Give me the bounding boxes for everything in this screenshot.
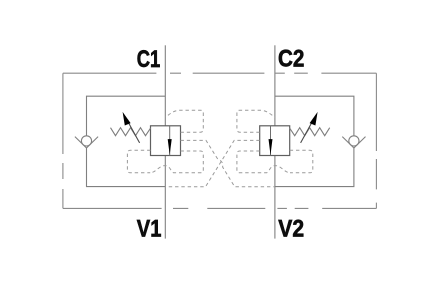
counterbalance valve body right [260,126,290,156]
spring right [290,128,330,136]
flow arrow right [269,139,273,155]
check valve CV2 [342,136,365,148]
counterbalance valve body left [151,126,181,156]
pilot line loop upper left (C1 sense) [165,110,203,132]
line C2 (port C2 to valve) [274,45,276,126]
svg-text:V1: V1 [137,216,162,243]
flow path line right [270,126,272,156]
svg-text:C1: C1 [137,46,161,73]
adjustment arrow left [127,120,140,143]
check valve CV1 [75,136,98,148]
adjustment arrow right [301,120,314,143]
pilot line loop upper right (C2 sense) [237,110,275,132]
right valve assembly solid box [275,96,354,186]
line C1 (port C1 to valve) [164,45,166,126]
cross pilot line right valve to C1 (with hop over other pilot) [165,140,259,186]
left valve assembly solid box [87,96,166,186]
flow arrow left [168,139,172,155]
line V2 (valve to port V2) [274,156,276,239]
svg-text:C2: C2 [278,46,304,73]
drain loop left (spring chamber drain, bridges over C1) [127,150,203,173]
enclosure outer dashed boundary (manifold) [63,73,377,208]
line V1 (valve to port V1) [164,156,166,239]
drain loop right (spring chamber drain, bridges over C2) [237,150,313,173]
cross pilot line left valve to C2 [181,140,275,186]
spring left [111,128,151,136]
svg-text:V2: V2 [278,215,304,242]
flow path line left [169,126,171,156]
